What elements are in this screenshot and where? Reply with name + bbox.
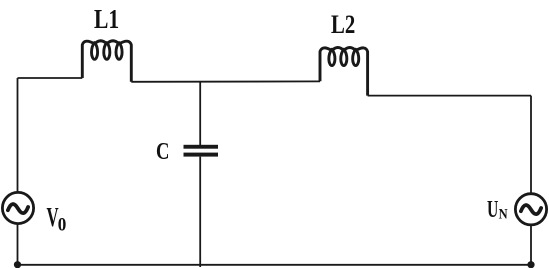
wire <box>17 224 19 265</box>
svg-text:U: U <box>487 197 498 223</box>
label V_0 <box>47 202 67 235</box>
junction <box>527 261 534 268</box>
svg-text:L2: L2 <box>331 11 355 40</box>
wire <box>368 95 531 97</box>
label L2 <box>331 11 355 40</box>
ac source V_0 <box>2 192 33 223</box>
wire <box>530 96 532 194</box>
svg-text:0: 0 <box>58 214 67 235</box>
label L1 <box>94 5 119 35</box>
svg-text:V: V <box>47 202 59 232</box>
label U_N <box>487 197 508 223</box>
svg-text:N: N <box>499 206 508 222</box>
capacitor C <box>184 145 219 157</box>
label C <box>156 137 169 164</box>
inductor L2 <box>320 48 368 96</box>
wire <box>199 157 201 267</box>
svg-text:C: C <box>156 137 169 164</box>
wire <box>199 82 201 145</box>
wire <box>530 225 532 265</box>
svg-text:L1: L1 <box>94 5 119 35</box>
junction <box>14 261 21 268</box>
wire <box>17 78 19 192</box>
wire <box>131 80 320 82</box>
wire <box>18 264 532 266</box>
wire <box>18 77 83 79</box>
ac source U_N <box>515 194 546 225</box>
inductor L1 <box>82 41 131 82</box>
